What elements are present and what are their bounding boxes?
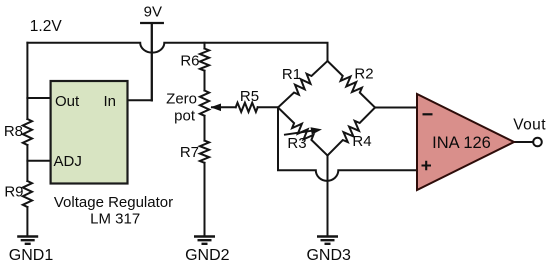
voltage regulator U1 LM 317 box (51, 81, 128, 184)
svg-text:LM 317: LM 317 (90, 211, 140, 228)
wire R6 to pot (204, 71, 206, 91)
svg-text:Out: Out (55, 93, 80, 110)
svg-text:Vout: Vout (513, 117, 546, 134)
wire bridge left node down and right to + input with hop over GND3 wire (278, 108, 417, 181)
resistor R2 (bridge upper-right arm) (328, 61, 376, 108)
resistor R7 (200, 141, 209, 163)
ground GND3 (317, 237, 338, 244)
resistor R8 (23, 119, 32, 145)
resistor R9 (23, 181, 32, 207)
svg-text:ADJ: ADJ (54, 153, 82, 170)
svg-text:9V: 9V (144, 4, 162, 21)
svg-text:Voltage Regulator: Voltage Regulator (54, 194, 173, 211)
svg-text:R2: R2 (354, 66, 373, 83)
resistor R3 (bridge lower-left arm, variable) (278, 108, 328, 156)
potentiometer Zero pot (200, 91, 209, 116)
wire middle vertical top (rail to R6) (204, 43, 206, 49)
9V supply terminal (141, 23, 163, 100)
wire ADJ pin (27, 160, 51, 162)
svg-text:R3: R3 (287, 135, 306, 152)
wire In pin (128, 99, 152, 101)
op-amp U2 INA 126 triangle (417, 94, 514, 190)
resistor R4 (bridge lower-right arm) (328, 108, 376, 156)
resistor R5 (236, 103, 258, 112)
wire R7 to GND2 (204, 163, 206, 237)
wire R5 to bridge left node (258, 106, 278, 108)
pot wiper arrow (211, 104, 222, 112)
svg-text:R4: R4 (352, 133, 371, 150)
plus input sign (422, 161, 432, 170)
svg-text:R6: R6 (180, 52, 199, 69)
wire bridge right node to - input (375, 107, 417, 109)
resistor R6 (200, 49, 209, 71)
svg-text:pot: pot (174, 107, 196, 124)
svg-text:1.2V: 1.2V (30, 18, 63, 35)
wire left vertical mid (R8 to R9) (26, 145, 28, 181)
wire pot wiper to R5 (212, 106, 236, 108)
svg-text:R9: R9 (4, 183, 23, 200)
output terminal circle (533, 138, 542, 147)
resistor R1 (bridge upper-left arm) (278, 61, 328, 108)
R3 variable arrow (284, 127, 322, 135)
wire Out pin (27, 97, 51, 99)
svg-text:GND3: GND3 (306, 247, 351, 264)
wire left vertical upper (rail to Out junction) (26, 43, 28, 119)
svg-text:R1: R1 (282, 66, 301, 83)
svg-text:In: In (104, 93, 117, 110)
svg-text:R8: R8 (4, 123, 23, 140)
wire pot to R7 (204, 116, 206, 141)
svg-text:Zero: Zero (166, 90, 197, 107)
minus input sign (423, 113, 433, 115)
svg-text:INA 126: INA 126 (432, 134, 491, 152)
wire bridge bottom node to GND3 (327, 156, 329, 237)
svg-text:GND2: GND2 (185, 247, 230, 264)
ground GND1 (17, 237, 38, 244)
svg-text:GND1: GND1 (9, 247, 54, 264)
ground GND2 (194, 237, 215, 244)
svg-text:R5: R5 (240, 88, 259, 105)
svg-text:R7: R7 (180, 144, 199, 161)
wire 1.2V rail top horizontal with hop over 9V (27, 43, 327, 61)
wire amp output to terminal (514, 141, 533, 143)
wire left vertical lower (R9 to GND1) (26, 207, 28, 236)
